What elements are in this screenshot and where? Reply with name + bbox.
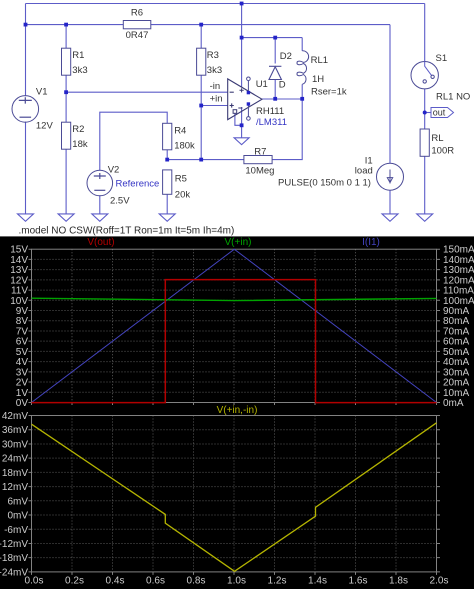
svg-text:R5: R5 [175, 174, 187, 185]
svg-text:3k3: 3k3 [207, 65, 222, 76]
svg-text:0.0s: 0.0s [25, 576, 44, 587]
svg-text:180k: 180k [174, 140, 195, 151]
wire R1 bottom [65, 75, 67, 92]
resistor R1 [62, 48, 71, 75]
wire RL bottom to ground [424, 156, 426, 214]
svg-text:-18mV: -18mV [0, 553, 28, 564]
svg-text:RH111: RH111 [256, 106, 284, 117]
svg-text:30mV: 30mV [2, 439, 28, 450]
svg-text:1.0s: 1.0s [227, 576, 246, 587]
svg-text:I(I1): I(I1) [362, 237, 380, 248]
resistor R3 [197, 48, 206, 75]
U1 -in mark [230, 91, 234, 93]
svg-text:R6: R6 [131, 8, 143, 19]
ground RL [417, 214, 433, 221]
svg-text:20k: 20k [175, 189, 191, 200]
svg-text:.model NO CSW(Roff=1T Ron=1m I: .model NO CSW(Roff=1T Ron=1m It=5m Ih=4m… [19, 226, 235, 237]
waveform background [0, 236, 474, 589]
resistor R5 [163, 170, 172, 194]
pane2 left axis labels [0, 411, 28, 578]
pane1 left axis labels [10, 245, 28, 409]
svg-text:0.8s: 0.8s [187, 576, 206, 587]
junction U1 V+ / D2 wire [240, 36, 244, 40]
U1 pin 6 pad [247, 91, 250, 94]
wire R1 top [65, 25, 67, 49]
wire D2 cathode stub [274, 38, 276, 64]
wire R2 bottom to ground [65, 149, 67, 214]
svg-text:V(+in): V(+in) [225, 237, 252, 248]
voltage source V2 [87, 170, 113, 196]
resistor R6 [123, 21, 151, 29]
junction V1/rail2 [24, 23, 28, 27]
wire I1 bottom to ground [389, 190, 391, 214]
trace V(+in,-in) [32, 423, 437, 572]
wire R5 bottom to ground [166, 194, 168, 214]
ground R5 [159, 214, 175, 221]
svg-text:2.0s: 2.0s [430, 576, 449, 587]
resistor R2 [62, 122, 71, 149]
U1 pin 5 pad [247, 102, 250, 105]
svg-text:R4: R4 [174, 125, 186, 136]
svg-text:R1: R1 [72, 50, 84, 61]
junction R3 column / feedback [199, 158, 203, 162]
svg-text:0mA: 0mA [443, 398, 464, 409]
trace V(out) [32, 280, 437, 403]
svg-text:1.6s: 1.6s [349, 576, 368, 587]
trace V(+in) [32, 298, 437, 300]
wire D2 anode stub [274, 79, 276, 99]
wire rail2 right segment R6 to I1 column [151, 24, 390, 26]
junction D2 bottom output [273, 97, 277, 101]
svg-text:36mV: 36mV [2, 425, 28, 436]
diode D2 [269, 66, 281, 79]
svg-text:D: D [279, 80, 286, 91]
wire V1 top [25, 4, 27, 97]
wire rail2 left segment to R6 [26, 24, 124, 26]
ground U1 [234, 138, 249, 145]
U1 strobe pin 6 top [247, 77, 251, 92]
svg-text:0.6s: 0.6s [146, 576, 165, 587]
svg-text:1.2s: 1.2s [268, 576, 287, 587]
ground V1 [18, 214, 34, 221]
pane1 bottom ticks [32, 403, 437, 406]
svg-text:10Meg: 10Meg [245, 166, 274, 177]
svg-text:12mV: 12mV [2, 482, 28, 493]
wire R3 bottom column [200, 75, 202, 159]
pane2 right ticks [437, 416, 441, 572]
resistor RL [420, 129, 429, 156]
wire RL1 bottom stub [301, 84, 303, 99]
svg-text:12V: 12V [36, 121, 54, 132]
svg-text:-12mV: -12mV [0, 539, 28, 550]
op-amp U1 comparator triangle [228, 79, 262, 120]
resistor R7 [244, 156, 272, 164]
pane1 border [32, 249, 437, 402]
svg-text:R7: R7 [254, 146, 266, 157]
svg-text:load: load [355, 166, 373, 177]
pane1 grid [32, 249, 437, 402]
junction +in divider [199, 104, 203, 108]
resistor R4 [163, 123, 172, 150]
svg-text:100R: 100R [431, 145, 454, 156]
svg-text:V(out): V(out) [87, 237, 114, 248]
svg-text:0R47: 0R47 [126, 30, 149, 41]
pane2 grid [32, 416, 437, 572]
svg-text:0V: 0V [16, 398, 29, 409]
node out flag [431, 108, 454, 118]
U1 V- mark [238, 107, 242, 109]
svg-text:out: out [433, 108, 446, 118]
junction U1 V- ground [240, 123, 244, 127]
U1 pin 1 square pad [233, 110, 237, 114]
wire V1 bottom to ground [25, 122, 27, 214]
svg-text:-6mV: -6mV [4, 525, 28, 536]
junction out node [423, 111, 427, 115]
svg-text:RL1: RL1 [311, 55, 328, 66]
wire feedback node horizontal [167, 159, 244, 161]
svg-text:PULSE(0 150m 0 1 1): PULSE(0 150m 0 1 1) [278, 177, 371, 188]
wire U1 pin1 to V- junction [235, 114, 242, 126]
U1 +in mark [230, 103, 234, 107]
svg-text:V(+in,-in): V(+in,-in) [217, 405, 258, 416]
schematic background [0, 0, 474, 236]
wire R3 top [200, 25, 202, 49]
svg-text:1.4s: 1.4s [308, 576, 327, 587]
U1 V+ mark [240, 88, 244, 92]
current source I1 [377, 163, 404, 190]
svg-text:D2: D2 [280, 51, 292, 62]
junction top rail / U1 V+ [240, 2, 244, 6]
junction R3 top [199, 23, 203, 27]
wire +in net [201, 105, 228, 107]
trace I(I1) [32, 249, 437, 402]
svg-text:1.8s: 1.8s [389, 576, 408, 587]
svg-text:V1: V1 [36, 87, 48, 98]
wire RL1 top stub [301, 38, 303, 51]
svg-text:Rser=1k: Rser=1k [311, 86, 347, 97]
svg-text:24mV: 24mV [2, 454, 28, 465]
wire S1 bottom to RL [424, 89, 426, 129]
svg-text:6mV: 6mV [7, 496, 28, 507]
svg-text:RL: RL [431, 133, 443, 144]
wire U1 ground stub [241, 125, 243, 138]
svg-text:0mV: 0mV [7, 511, 28, 522]
inductor RL1 [297, 51, 309, 85]
ground V2 [92, 214, 108, 221]
wire comparator output [262, 98, 302, 100]
svg-text:V2: V2 [108, 165, 120, 176]
svg-text:0.2s: 0.2s [65, 576, 84, 587]
svg-text:0.4s: 0.4s [106, 576, 125, 587]
wire out flag stub [425, 112, 431, 114]
wire top +12V rail [26, 3, 425, 5]
junction RL1 bottom / R7 [300, 97, 304, 101]
wire R4 bottom [166, 150, 168, 160]
junction D2 top [273, 36, 277, 40]
junction R4/R5 [165, 158, 169, 162]
svg-text:3k3: 3k3 [72, 65, 87, 76]
junction R1 top [64, 23, 68, 27]
pane2 border [32, 416, 437, 572]
wire V2 top to R4 top [100, 112, 167, 170]
wire S1 top [424, 4, 426, 62]
voltage source V1 [12, 96, 39, 123]
svg-text:-in: -in [210, 81, 221, 92]
ground I1 [382, 214, 398, 221]
wire U1 V- pin [241, 107, 243, 125]
switch S1 [411, 61, 438, 88]
svg-text:S1: S1 [436, 53, 448, 64]
svg-text:2.5V: 2.5V [110, 195, 130, 206]
svg-text:R3: R3 [207, 50, 219, 61]
wire V2 bottom to ground [99, 195, 101, 214]
svg-text:RL1 NO: RL1 NO [436, 91, 470, 102]
svg-text:18k: 18k [72, 139, 88, 150]
wire U1 V+ pin [241, 4, 243, 88]
svg-text:1H: 1H [312, 74, 324, 85]
U1 strobe pin 5 bottom [247, 104, 251, 120]
svg-text:18mV: 18mV [2, 468, 28, 479]
wire D2-RL1 top [242, 37, 303, 39]
wire I1 top [389, 25, 391, 164]
wire R7 right to output node [272, 99, 302, 160]
ground R2 [58, 214, 74, 221]
svg-text:R2: R2 [72, 124, 84, 135]
svg-text:42mV: 42mV [2, 411, 28, 422]
time axis ticks [32, 572, 437, 575]
wire -in net [66, 91, 228, 93]
svg-text:+in: +in [210, 94, 223, 105]
svg-text:U1: U1 [256, 79, 268, 90]
svg-text:Reference: Reference [116, 179, 160, 190]
wire R2 top [65, 92, 67, 122]
time axis labels [25, 576, 449, 587]
svg-text:/LM311: /LM311 [256, 117, 287, 128]
pane1 right axis labels [443, 245, 474, 409]
junction R1 bottom -in [64, 90, 68, 94]
